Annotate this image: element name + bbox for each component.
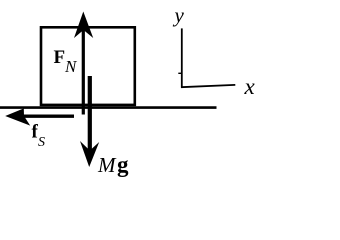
svg-text:N: N <box>64 57 78 76</box>
weight arrow Mg head <box>80 141 99 167</box>
small tick on y axis <box>178 72 181 74</box>
friction arrow f_s shaft <box>20 114 74 117</box>
svg-text:g: g <box>117 152 129 177</box>
normal force arrow F_N head <box>74 12 93 39</box>
svg-text:y: y <box>173 3 185 27</box>
svg-text:F: F <box>54 47 66 68</box>
surface line <box>0 106 217 109</box>
block (box outline) <box>41 27 135 105</box>
svg-text:M: M <box>97 153 117 177</box>
y axis line <box>181 28 183 87</box>
weight arrow Mg shaft <box>88 76 92 152</box>
svg-text:S: S <box>38 135 45 150</box>
normal force arrow F_N shaft <box>82 26 85 115</box>
svg-text:x: x <box>244 74 256 99</box>
friction arrow f_s head <box>5 108 30 125</box>
x axis line <box>181 85 235 87</box>
